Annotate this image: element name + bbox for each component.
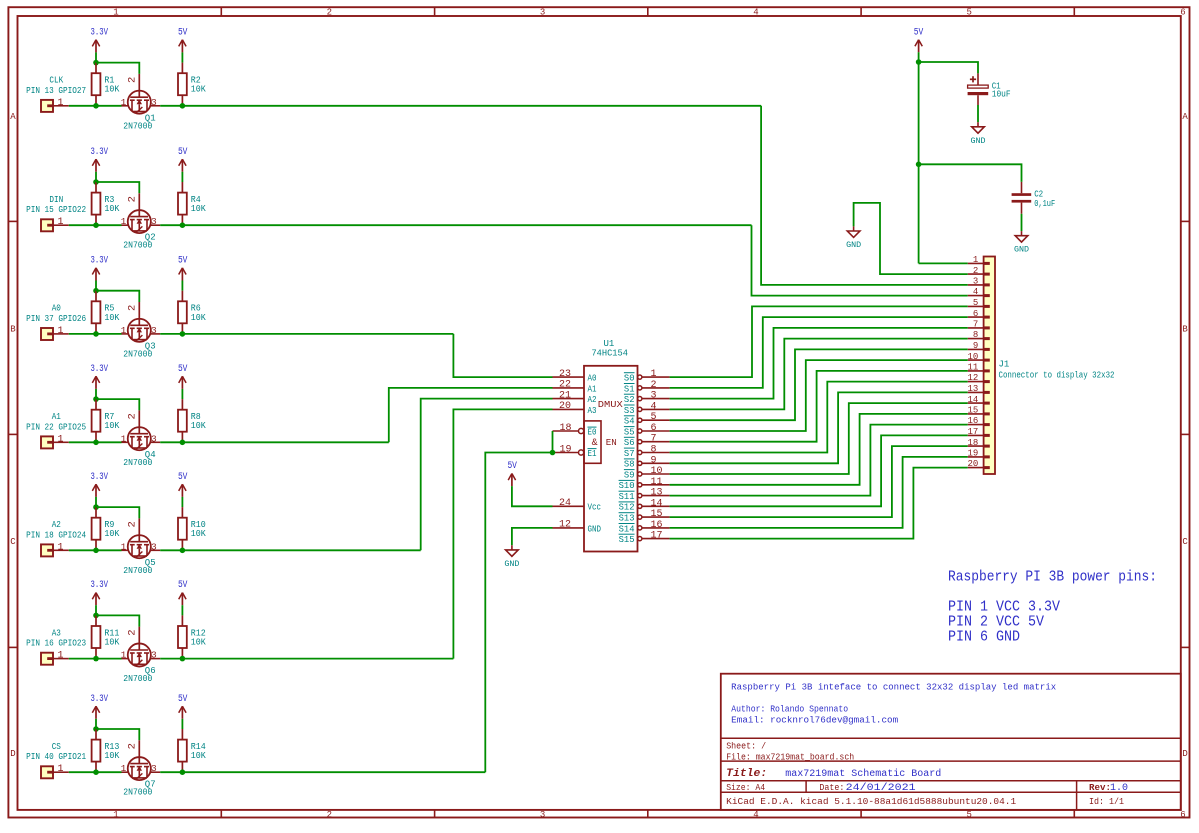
svg-text:9: 9 (973, 341, 978, 351)
svg-text:Email: rocknrol76dev@gmail.com: Email: rocknrol76dev@gmail.com (731, 716, 898, 726)
svg-text:2N7000: 2N7000 (123, 349, 152, 359)
svg-text:12: 12 (559, 520, 571, 531)
svg-text:3.3V: 3.3V (91, 27, 109, 38)
svg-text:3.3V: 3.3V (91, 364, 109, 375)
svg-text:5V: 5V (914, 27, 924, 38)
svg-text:3.3V: 3.3V (91, 472, 109, 483)
svg-text:2: 2 (327, 810, 332, 820)
svg-text:22: 22 (559, 380, 571, 391)
svg-text:5: 5 (966, 810, 971, 820)
svg-text:7: 7 (651, 434, 657, 445)
svg-text:10K: 10K (191, 85, 207, 95)
svg-text:DIN: DIN (49, 195, 63, 205)
svg-text:13: 13 (651, 488, 663, 499)
svg-text:74HC154: 74HC154 (591, 349, 628, 359)
svg-text:21: 21 (559, 390, 571, 401)
svg-text:4: 4 (753, 810, 758, 820)
svg-text:PIN 2 VCC 5V: PIN 2 VCC 5V (948, 615, 1044, 631)
svg-text:9: 9 (651, 455, 657, 466)
svg-text:5: 5 (966, 7, 971, 17)
svg-text:10K: 10K (191, 638, 207, 648)
svg-text:S5: S5 (624, 426, 635, 437)
svg-text:C: C (1182, 537, 1188, 547)
svg-text:S6: S6 (624, 437, 635, 448)
svg-text:11: 11 (651, 477, 663, 488)
svg-text:5: 5 (651, 412, 657, 423)
svg-text:10K: 10K (104, 529, 120, 539)
svg-text:S0: S0 (624, 373, 635, 384)
svg-text:10K: 10K (191, 421, 207, 431)
svg-text:A0: A0 (588, 373, 597, 384)
svg-text:D: D (1182, 749, 1187, 759)
svg-text:DMUX: DMUX (598, 399, 623, 410)
svg-text:S7: S7 (624, 448, 635, 459)
svg-text:S13: S13 (619, 513, 635, 524)
svg-text:17: 17 (651, 531, 663, 542)
svg-text:KiCad E.D.A. kicad 5.1.10-88a: KiCad E.D.A. kicad 5.1.10-88a1d61d5888ub… (726, 797, 1016, 807)
svg-text:15: 15 (651, 509, 663, 520)
svg-text:S10: S10 (619, 480, 635, 491)
svg-text:PIN 1 VCC 3.3V: PIN 1 VCC 3.3V (948, 600, 1060, 616)
svg-text:14: 14 (651, 498, 663, 509)
svg-text:1: 1 (121, 97, 127, 108)
svg-text:S2: S2 (624, 394, 635, 405)
svg-text:2: 2 (973, 266, 978, 276)
svg-text:3: 3 (151, 433, 157, 444)
svg-text:1: 1 (57, 764, 63, 775)
svg-text:18: 18 (559, 423, 571, 434)
svg-text:1.0: 1.0 (1110, 783, 1128, 794)
svg-text:Id: 1/1: Id: 1/1 (1089, 797, 1124, 807)
svg-text:10K: 10K (191, 751, 207, 761)
svg-text:3: 3 (651, 391, 657, 402)
svg-text:1: 1 (121, 216, 127, 227)
svg-text:EN: EN (606, 437, 617, 448)
svg-text:3.3V: 3.3V (91, 694, 109, 705)
svg-text:0,1uF: 0,1uF (1034, 199, 1055, 209)
svg-text:A3: A3 (588, 405, 597, 416)
svg-text:3: 3 (540, 7, 545, 17)
svg-text:2N7000: 2N7000 (123, 674, 152, 684)
svg-text:1: 1 (57, 98, 63, 109)
svg-text:14: 14 (967, 395, 978, 405)
svg-text:GND: GND (971, 137, 986, 146)
svg-text:Date:: Date: (819, 783, 844, 793)
svg-text:Raspberry PI 3B power pins:: Raspberry PI 3B power pins: (948, 569, 1157, 585)
svg-text:PIN 18 GPIO24: PIN 18 GPIO24 (26, 530, 86, 540)
svg-text:2N7000: 2N7000 (123, 121, 152, 131)
svg-text:1: 1 (57, 217, 63, 228)
svg-text:1: 1 (57, 434, 63, 445)
svg-text:1: 1 (57, 542, 63, 553)
svg-text:CS: CS (52, 742, 61, 752)
svg-text:S12: S12 (619, 502, 635, 513)
svg-text:5V: 5V (178, 256, 188, 267)
svg-text:S8: S8 (624, 459, 635, 470)
svg-text:8: 8 (973, 330, 978, 340)
svg-text:19: 19 (559, 444, 571, 455)
svg-text:18: 18 (967, 438, 978, 448)
svg-text:GND: GND (846, 241, 861, 250)
svg-text:B: B (10, 324, 16, 334)
svg-text:2N7000: 2N7000 (123, 788, 152, 798)
svg-text:3: 3 (151, 650, 157, 661)
svg-text:A1: A1 (52, 412, 61, 422)
svg-text:24/01/2021: 24/01/2021 (846, 782, 916, 794)
svg-text:PIN 13 GPIO27: PIN 13 GPIO27 (26, 86, 86, 96)
svg-text:17: 17 (967, 427, 978, 437)
svg-text:3.3V: 3.3V (91, 580, 109, 591)
svg-text:10K: 10K (104, 313, 120, 323)
svg-text:S1: S1 (624, 383, 635, 394)
svg-text:1: 1 (57, 326, 63, 337)
svg-text:2: 2 (127, 77, 139, 83)
svg-text:10: 10 (651, 466, 663, 477)
svg-text:GND: GND (588, 523, 602, 534)
svg-text:2N7000: 2N7000 (123, 241, 152, 251)
svg-text:3: 3 (151, 763, 157, 774)
svg-text:Author: Rolando Spennato: Author: Rolando Spennato (731, 705, 848, 715)
svg-text:20: 20 (559, 401, 571, 412)
svg-text:2N7000: 2N7000 (123, 566, 152, 576)
svg-text:A1: A1 (588, 383, 597, 394)
svg-text:6: 6 (1180, 7, 1185, 17)
svg-text:File: max7219mat_board.sch: File: max7219mat_board.sch (726, 752, 854, 762)
svg-text:3: 3 (151, 97, 157, 108)
svg-text:5V: 5V (178, 27, 188, 38)
svg-text:4: 4 (651, 401, 657, 412)
svg-text:3: 3 (151, 325, 157, 336)
svg-text:S14: S14 (619, 523, 635, 534)
svg-text:A3: A3 (52, 628, 61, 638)
svg-text:A: A (1182, 112, 1188, 122)
svg-text:3.3V: 3.3V (91, 147, 109, 158)
svg-text:5: 5 (973, 298, 978, 308)
svg-text:10: 10 (967, 352, 978, 362)
svg-text:5V: 5V (178, 694, 188, 705)
svg-text:10K: 10K (191, 529, 207, 539)
svg-text:2: 2 (327, 7, 332, 17)
svg-text:U1: U1 (603, 339, 614, 349)
svg-text:Title:: Title: (726, 768, 767, 780)
svg-text:S9: S9 (624, 469, 635, 480)
svg-text:PIN 37 GPIO26: PIN 37 GPIO26 (26, 314, 86, 324)
svg-text:Raspberry Pi 3B inteface to co: Raspberry Pi 3B inteface to connect 32x3… (731, 682, 1056, 692)
svg-text:Connector to display 32x32: Connector to display 32x32 (999, 371, 1115, 381)
svg-text:Rev:: Rev: (1089, 783, 1111, 793)
svg-text:S4: S4 (624, 416, 635, 427)
svg-text:23: 23 (559, 369, 571, 380)
svg-text:13: 13 (967, 384, 978, 394)
svg-text:20: 20 (967, 459, 978, 469)
svg-text:12: 12 (967, 373, 978, 383)
svg-text:S11: S11 (619, 491, 635, 502)
svg-text:5V: 5V (178, 580, 188, 591)
svg-text:1: 1 (113, 810, 118, 820)
svg-text:1: 1 (121, 541, 127, 552)
svg-text:5V: 5V (178, 364, 188, 375)
svg-text:8: 8 (651, 445, 657, 456)
svg-text:GND: GND (1014, 246, 1029, 255)
svg-text:10K: 10K (191, 313, 207, 323)
svg-text:3.3V: 3.3V (91, 256, 109, 267)
svg-text:4: 4 (973, 287, 978, 297)
svg-text:Sheet: /: Sheet: / (726, 742, 766, 752)
svg-text:E1: E1 (588, 448, 597, 459)
svg-text:3: 3 (540, 810, 545, 820)
svg-text:16: 16 (651, 520, 663, 531)
svg-text:PIN 22 GPIO25: PIN 22 GPIO25 (26, 422, 86, 432)
svg-text:E0: E0 (588, 426, 597, 437)
svg-text:2: 2 (651, 380, 657, 391)
svg-text:1: 1 (651, 369, 657, 380)
svg-text:10K: 10K (191, 204, 207, 214)
svg-text:D: D (10, 749, 15, 759)
svg-text:2: 2 (127, 629, 139, 635)
svg-text:A: A (10, 112, 16, 122)
svg-text:S3: S3 (624, 405, 635, 416)
svg-text:2: 2 (127, 305, 139, 311)
svg-text:PIN 6 GND: PIN 6 GND (948, 630, 1020, 646)
svg-text:max7219mat Schematic Board: max7219mat Schematic Board (785, 768, 941, 780)
svg-text:10K: 10K (104, 751, 120, 761)
svg-text:1: 1 (121, 433, 127, 444)
svg-text:2: 2 (127, 521, 139, 527)
svg-text:6: 6 (1180, 810, 1185, 820)
svg-text:Size: A4: Size: A4 (726, 783, 765, 793)
svg-text:1: 1 (57, 651, 63, 662)
svg-text:A2: A2 (52, 520, 61, 530)
svg-text:C: C (10, 537, 16, 547)
svg-text:PIN 15 GPIO22: PIN 15 GPIO22 (26, 205, 86, 215)
svg-text:4: 4 (753, 7, 758, 17)
svg-text:19: 19 (967, 449, 978, 459)
svg-text:2: 2 (127, 743, 139, 749)
svg-text:5V: 5V (178, 472, 188, 483)
svg-text:1: 1 (113, 7, 118, 17)
svg-text:CLK: CLK (49, 76, 63, 86)
svg-text:1: 1 (121, 650, 127, 661)
svg-text:Vcc: Vcc (588, 502, 602, 513)
svg-text:6: 6 (651, 423, 657, 434)
svg-text:3: 3 (973, 277, 978, 287)
svg-text:2: 2 (127, 196, 139, 202)
svg-text:PIN 40 GPIO21: PIN 40 GPIO21 (26, 752, 86, 762)
svg-text:J1: J1 (999, 360, 1010, 370)
svg-text:16: 16 (967, 416, 978, 426)
svg-text:3: 3 (151, 216, 157, 227)
svg-text:10K: 10K (104, 204, 120, 214)
svg-text:10uF: 10uF (992, 89, 1011, 99)
svg-text:11: 11 (967, 363, 978, 373)
svg-text:10K: 10K (104, 421, 120, 431)
svg-text:1: 1 (121, 325, 127, 336)
svg-text:24: 24 (559, 498, 571, 509)
svg-text:B: B (1182, 324, 1188, 334)
svg-text:2: 2 (127, 413, 139, 419)
svg-text:15: 15 (967, 406, 978, 416)
svg-text:5V: 5V (507, 461, 517, 472)
svg-text:5V: 5V (178, 147, 188, 158)
svg-text:A2: A2 (588, 394, 597, 405)
svg-text:GND: GND (504, 560, 519, 569)
svg-text:7: 7 (973, 320, 978, 330)
svg-text:2N7000: 2N7000 (123, 458, 152, 468)
svg-text:10K: 10K (104, 85, 120, 95)
svg-text:A0: A0 (52, 304, 61, 314)
svg-text:S15: S15 (619, 534, 635, 545)
svg-text:10K: 10K (104, 638, 120, 648)
svg-text:6: 6 (973, 309, 978, 319)
svg-text:1: 1 (121, 763, 127, 774)
svg-text:1: 1 (973, 255, 978, 265)
svg-text:3: 3 (151, 541, 157, 552)
svg-text:PIN 16 GPIO23: PIN 16 GPIO23 (26, 639, 86, 649)
